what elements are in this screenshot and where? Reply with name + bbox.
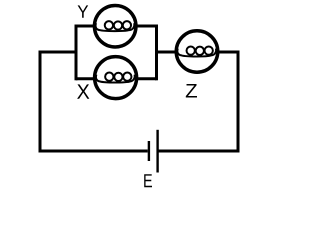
wire: lamp Y to right bar: [135, 25, 157, 28]
wire: right bar to lamp Z: [157, 51, 179, 54]
wire: right vertical: [237, 51, 240, 153]
junction bar: parallel left: [75, 25, 78, 81]
lamp Y: [94, 5, 136, 47]
lamp X: [95, 57, 137, 99]
wire: bottom left horizontal: [39, 150, 148, 153]
wire: left vertical: [39, 51, 42, 153]
label Z: [186, 84, 197, 98]
label X: [77, 84, 89, 98]
lamp Z: [176, 31, 218, 73]
wire: lamp Z to right side: [216, 51, 240, 54]
label E: [144, 174, 152, 187]
wire: left bar to lamp Y: [76, 25, 95, 28]
wire: bottom right horizontal: [157, 150, 240, 153]
wire: lamp X to right bar: [135, 77, 157, 80]
battery E positive plate (tall): [156, 130, 158, 173]
junction bar: parallel right: [155, 25, 158, 81]
battery E negative plate (short): [148, 141, 150, 161]
wire: main left horizontal: [39, 51, 77, 54]
label Y: [78, 5, 89, 17]
wire: left bar to lamp X: [76, 77, 95, 80]
